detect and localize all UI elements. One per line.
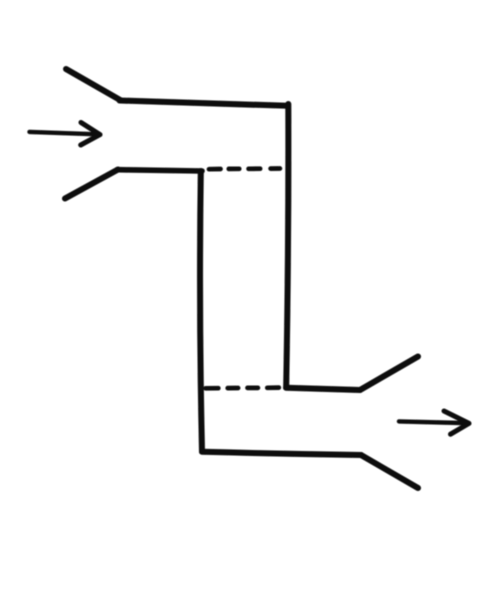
outlet lower wall (horizontal)	[202, 452, 361, 455]
inlet upper flare wall	[66, 69, 121, 101]
inlet lower flare wall	[65, 170, 118, 199]
outlet lower flare wall	[361, 455, 418, 488]
inlet flow arrow head	[81, 123, 100, 146]
upper dashed section line	[209, 166, 280, 171]
inlet upper wall (horizontal duct top)	[120, 101, 289, 106]
outlet flow arrow shaft	[399, 421, 462, 423]
outlet flow arrow head	[444, 411, 469, 434]
inlet flow arrow shaft	[30, 132, 95, 134]
left vertical duct wall	[200, 171, 202, 452]
lower dashed section line	[206, 385, 279, 390]
inlet lower wall (horizontal)	[117, 170, 202, 171]
outlet upper wall (horizontal)	[286, 388, 360, 390]
outlet upper flare wall	[360, 357, 418, 391]
right vertical duct wall	[286, 104, 288, 387]
